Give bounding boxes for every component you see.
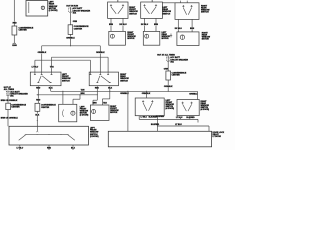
svg-text:BRN: BRN — [93, 102, 98, 104]
svg-text:RIGHT: RIGHT — [110, 106, 117, 108]
svg-text:DK BLU: DK BLU — [141, 24, 149, 26]
svg-text:LEFT: LEFT — [62, 74, 68, 76]
svg-text:DK BLU: DK BLU — [175, 28, 183, 30]
svg-text:WINDOW: WINDOW — [120, 78, 129, 80]
svg-text:CONVENIENCE: CONVENIENCE — [172, 73, 187, 75]
svg-text:BLK/RED: BLK/RED — [151, 124, 160, 126]
svg-text:WINDOW: WINDOW — [110, 110, 119, 112]
svg-text:BRN: BRN — [80, 93, 85, 95]
svg-text:RED: RED — [36, 99, 41, 101]
svg-text:FRONT: FRONT — [80, 109, 87, 111]
svg-text:WINDOW: WINDOW — [90, 132, 99, 134]
svg-text:RED: RED — [95, 87, 100, 89]
svg-text:LT BLU: LT BLU — [176, 117, 183, 119]
svg-text:CONVENIENCE: CONVENIENCE — [19, 27, 34, 29]
svg-text:S208: S208 — [12, 45, 16, 47]
svg-text:BRN: BRN — [190, 28, 195, 30]
svg-text:SWITCH: SWITCH — [120, 80, 128, 82]
svg-text:LEFT: LEFT — [163, 7, 169, 9]
svg-text:SWITCH: SWITCH — [90, 134, 98, 136]
svg-text:LEFT: LEFT — [49, 2, 55, 4]
svg-text:SWITCH: SWITCH — [201, 12, 209, 14]
svg-text:BLK: BLK — [108, 87, 113, 89]
svg-text:RIGHT: RIGHT — [202, 33, 209, 35]
svg-text:CENTER: CENTER — [41, 107, 50, 109]
svg-text:SWITCH: SWITCH — [166, 106, 174, 108]
svg-text:CONVENIENCE: CONVENIENCE — [11, 104, 26, 106]
svg-text:FRONT: FRONT — [129, 9, 136, 11]
svg-text:ORN: ORN — [73, 21, 78, 23]
svg-text:BLK: BLK — [71, 147, 76, 149]
svg-text:LT BLU: LT BLU — [140, 117, 147, 119]
svg-text:MOTOR: MOTOR — [162, 38, 170, 40]
svg-text:WINDOW: WINDOW — [201, 10, 210, 12]
svg-text:(2 DOOR): (2 DOOR) — [80, 115, 89, 117]
svg-text:MOTOR: MOTOR — [110, 112, 118, 114]
svg-text:BLK: BLK — [49, 87, 54, 89]
svg-text:MOTOR: MOTOR — [80, 113, 88, 115]
svg-text:MOTOR: MOTOR — [127, 38, 135, 40]
svg-text:WINDOW: WINDOW — [166, 104, 175, 106]
svg-text:CENTER: CENTER — [172, 75, 181, 77]
svg-text:RED: RED — [36, 87, 41, 89]
svg-text:BRN OR ORN/BLK: BRN OR ORN/BLK — [1, 100, 18, 102]
svg-text:FRONT: FRONT — [62, 76, 69, 78]
svg-text:FRONT: FRONT — [166, 102, 173, 104]
svg-text:CONVENIENCE: CONVENIENCE — [74, 26, 89, 28]
svg-text:ORN/BLK: ORN/BLK — [66, 37, 75, 39]
svg-text:WINDOW: WINDOW — [49, 6, 58, 8]
svg-text:WINDOW: WINDOW — [202, 37, 211, 39]
svg-text:CENTER: CENTER — [19, 30, 28, 32]
svg-text:MOTOR: MOTOR — [49, 8, 57, 10]
svg-text:RED: RED — [47, 147, 52, 149]
svg-text:ORN: ORN — [164, 68, 169, 70]
svg-text:CENTER: CENTER — [74, 28, 83, 30]
svg-text:CONVENIENCE: CONVENIENCE — [41, 105, 56, 107]
svg-text:ORN/BLK: ORN/BLK — [164, 86, 173, 88]
svg-text:FRONT: FRONT — [110, 108, 117, 110]
svg-text:BRN OR ORN/BLK: BRN OR ORN/BLK — [1, 117, 19, 119]
svg-text:SWITCH: SWITCH — [129, 13, 137, 15]
svg-text:FRONT: FRONT — [90, 130, 97, 132]
svg-text:WINDOW: WINDOW — [162, 36, 171, 38]
svg-text:DOOR LOCK: DOOR LOCK — [213, 132, 225, 134]
svg-text:RIGHT: RIGHT — [127, 32, 134, 34]
svg-text:FRONT: FRONT — [127, 34, 134, 36]
svg-text:LT DOOR: LT DOOR — [213, 136, 222, 138]
svg-text:ORN/BLK: ORN/BLK — [189, 94, 198, 96]
svg-text:WINDOW: WINDOW — [129, 11, 138, 13]
svg-text:RIGHT: RIGHT — [201, 101, 208, 103]
svg-text:SWITCH: SWITCH — [163, 13, 171, 15]
svg-text:RIGHT: RIGHT — [120, 74, 127, 76]
svg-text:(2 DOOR): (2 DOOR) — [49, 10, 58, 12]
svg-text:WINDOW: WINDOW — [80, 111, 89, 113]
svg-text:SWITCH: SWITCH — [62, 80, 70, 82]
svg-text:MOTOR: MOTOR — [202, 39, 210, 41]
svg-text:HOT IN RUN: HOT IN RUN — [66, 6, 78, 8]
svg-text:WINDOW: WINDOW — [201, 105, 210, 107]
svg-text:BLK: BLK — [35, 114, 40, 116]
svg-text:WINDOW: WINDOW — [163, 11, 172, 13]
svg-text:BLK/RED: BLK/RED — [186, 117, 195, 119]
svg-text:DK BLU: DK BLU — [119, 24, 127, 26]
svg-text:RED: RED — [13, 22, 18, 24]
svg-text:(2 DOOR): (2 DOOR) — [90, 136, 99, 138]
svg-text:ORN/BLK: ORN/BLK — [38, 52, 47, 54]
svg-text:LT BLU: LT BLU — [32, 67, 39, 69]
svg-text:WINDOW: WINDOW — [127, 36, 136, 38]
svg-text:ORN/BLK: ORN/BLK — [96, 52, 105, 54]
svg-text:BLK/RED: BLK/RED — [156, 116, 165, 118]
svg-text:LT BLU: LT BLU — [175, 124, 182, 126]
svg-text:SWITCH: SWITCH — [201, 107, 209, 109]
svg-text:BRN: BRN — [154, 24, 159, 26]
svg-text:BRN: BRN — [109, 24, 114, 26]
svg-text:WINDOW: WINDOW — [62, 78, 71, 80]
svg-text:RIGHT: RIGHT — [129, 7, 136, 9]
svg-text:RIGHT: RIGHT — [201, 5, 208, 7]
svg-text:LT BLU: LT BLU — [17, 147, 24, 149]
svg-text:CENTER: CENTER — [11, 107, 20, 109]
